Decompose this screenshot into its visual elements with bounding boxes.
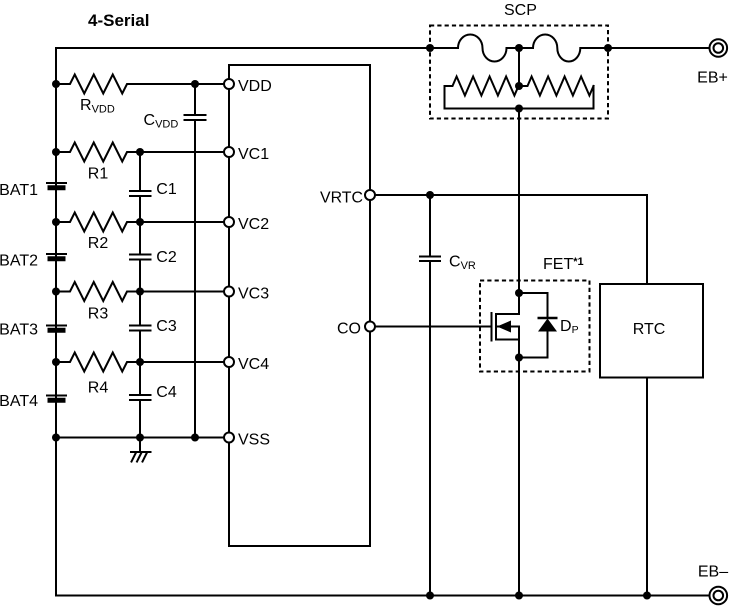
- svg-text:R1: R1: [88, 166, 109, 183]
- svg-text:C2: C2: [156, 249, 177, 266]
- battery BAT4 plates: [47, 395, 66, 397]
- wire: bottom EB- bus: [56, 595, 710, 597]
- junction: BAT3+ / R3 node: [52, 288, 60, 296]
- svg-text:VC3: VC3: [238, 286, 269, 303]
- svg-text:RTC: RTC: [633, 321, 666, 338]
- IC U1 outline: [229, 65, 370, 546]
- pin VSS: [224, 433, 234, 443]
- svg-text:VC2: VC2: [238, 216, 269, 233]
- battery BAT3 plates: [47, 325, 66, 327]
- pin VDD: [224, 79, 234, 89]
- svg-text:VSS: VSS: [238, 432, 270, 449]
- wire: SCP output to EB+ terminal: [608, 47, 710, 49]
- transistor Q1 source stub: [496, 340, 519, 358]
- terminal EB-: [710, 587, 728, 605]
- fuse F2 (SCP right element): [519, 35, 608, 62]
- wire: RTC to EB- bus: [646, 378, 648, 596]
- pin VC2: [224, 217, 234, 227]
- svg-text:SCP: SCP: [504, 2, 537, 19]
- FET dashed box: [480, 281, 590, 372]
- svg-text:VRTC: VRTC: [320, 189, 363, 206]
- svg-text:BAT2: BAT2: [0, 252, 38, 269]
- resistor R1: [56, 143, 224, 162]
- pin CO: [365, 322, 375, 332]
- wire: CO row to FET gate: [375, 326, 492, 328]
- pin VRTC: [365, 190, 375, 200]
- battery BAT2 plates: [47, 253, 66, 255]
- junction: FET / EB- bus: [515, 592, 523, 600]
- capacitor C4 plates: [130, 394, 151, 396]
- junction: SCP output: [604, 44, 612, 52]
- capacitor CVDD plates: [185, 114, 206, 116]
- wire: top bus from left corner to SCP: [56, 47, 430, 49]
- resistor R2: [56, 213, 224, 232]
- transistor Q1 arrow head: [497, 321, 511, 333]
- resistor RVDD: [56, 75, 224, 94]
- junction: FET drain / DP cathode: [515, 289, 523, 297]
- transistor Q1 gate bar: [491, 313, 493, 341]
- junction: SCP fuse midpoint: [515, 44, 523, 52]
- capacitor CVR plates: [420, 256, 440, 258]
- pin VC3: [224, 287, 234, 297]
- junction: BAT4+ / R4 node: [52, 358, 60, 366]
- wire: VRTC row to RTC: [375, 195, 647, 284]
- capacitor CVDD vertical wires: [194, 84, 196, 115]
- junction: BAT2+ / R2 node: [52, 218, 60, 226]
- svg-text:R2: R2: [88, 235, 109, 252]
- wire: left vertical bus: [55, 48, 57, 596]
- junction: R2 / C2 / VC2 node: [136, 218, 144, 226]
- diode DP: [538, 319, 557, 332]
- wire: VSS row: [56, 437, 224, 439]
- junction: SCP heater midpoint: [515, 82, 523, 90]
- junction: CVR / EB- bus: [426, 592, 434, 600]
- junction: BAT4- / VSS node: [52, 434, 60, 442]
- junction: SCP input: [426, 44, 434, 52]
- ground symbol: [139, 438, 141, 453]
- junction: RVDD left / VDD node: [52, 80, 60, 88]
- svg-text:4-Serial: 4-Serial: [88, 11, 149, 30]
- resistor R4: [56, 353, 224, 372]
- pin VC4: [224, 357, 234, 367]
- svg-text:BAT1: BAT1: [0, 182, 38, 199]
- pin VC1: [224, 147, 234, 157]
- transistor Q1 channel bar: [495, 314, 497, 340]
- capacitor C4 lower wire: [139, 400, 141, 438]
- junction: R3 / C3 / VC3 node: [136, 288, 144, 296]
- svg-text:C4: C4: [156, 384, 177, 401]
- fuse F1 (SCP left element): [430, 35, 519, 62]
- capacitor C1 column wires: [139, 152, 141, 191]
- capacitor CVR wires: [429, 195, 431, 257]
- junction: CVDD bottom / VSS node: [191, 434, 199, 442]
- svg-text:VC4: VC4: [238, 356, 269, 373]
- svg-text:BAT3: BAT3: [0, 321, 38, 338]
- wire: diode branch bottom: [519, 332, 548, 358]
- SCP dashed box: [430, 26, 608, 119]
- svg-text:EB–: EB–: [698, 564, 728, 581]
- transistor Q1 body stub with arrow: [497, 326, 519, 328]
- junction: SCP heater return: [515, 105, 523, 113]
- junction: BAT1+ / R1 node: [52, 148, 60, 156]
- svg-text:VDD: VDD: [238, 78, 272, 95]
- junction: VRTC / CVR node: [426, 191, 434, 199]
- wire: SCP heater return outline: [445, 86, 594, 109]
- RTC block: [600, 284, 703, 378]
- junction: RTC / EB- bus: [643, 592, 651, 600]
- wire: SCP fuse midpoint to heater: [518, 48, 520, 86]
- resistor R3: [56, 282, 224, 301]
- svg-text:R3: R3: [88, 306, 109, 323]
- resistor heater left (SCP): [445, 77, 519, 96]
- junction: ground / VSS node: [136, 434, 144, 442]
- capacitor C2 plates: [130, 254, 151, 256]
- transistor Q1 drain stub: [496, 293, 519, 314]
- capacitor C1 plates: [130, 190, 151, 192]
- svg-text:VC1: VC1: [238, 146, 269, 163]
- svg-text:R4: R4: [88, 380, 109, 397]
- capacitor C2 lower wire: [139, 260, 141, 326]
- capacitor C3 lower wire: [139, 331, 141, 396]
- junction: CVDD top / VDD node: [191, 80, 199, 88]
- svg-text:C3: C3: [156, 318, 177, 335]
- capacitor C3 plates: [130, 325, 151, 327]
- svg-text:EB+: EB+: [697, 70, 728, 87]
- junction: R4 / C4 / VC4 node: [136, 358, 144, 366]
- junction: R1 / C1 / VC1 node: [136, 148, 144, 156]
- terminal EB+: [710, 39, 728, 57]
- resistor heater right (SCP): [519, 77, 594, 96]
- svg-text:BAT4: BAT4: [0, 393, 38, 410]
- battery BAT1 plates: [47, 182, 66, 184]
- junction: FET source / DP anode: [515, 354, 523, 362]
- svg-text:CO: CO: [337, 320, 361, 337]
- svg-text:C1: C1: [156, 181, 177, 198]
- wire: diode branch top: [519, 293, 548, 318]
- wire: FET source to EB- bus: [518, 358, 520, 596]
- wire: SCP to FET drain: [518, 109, 520, 294]
